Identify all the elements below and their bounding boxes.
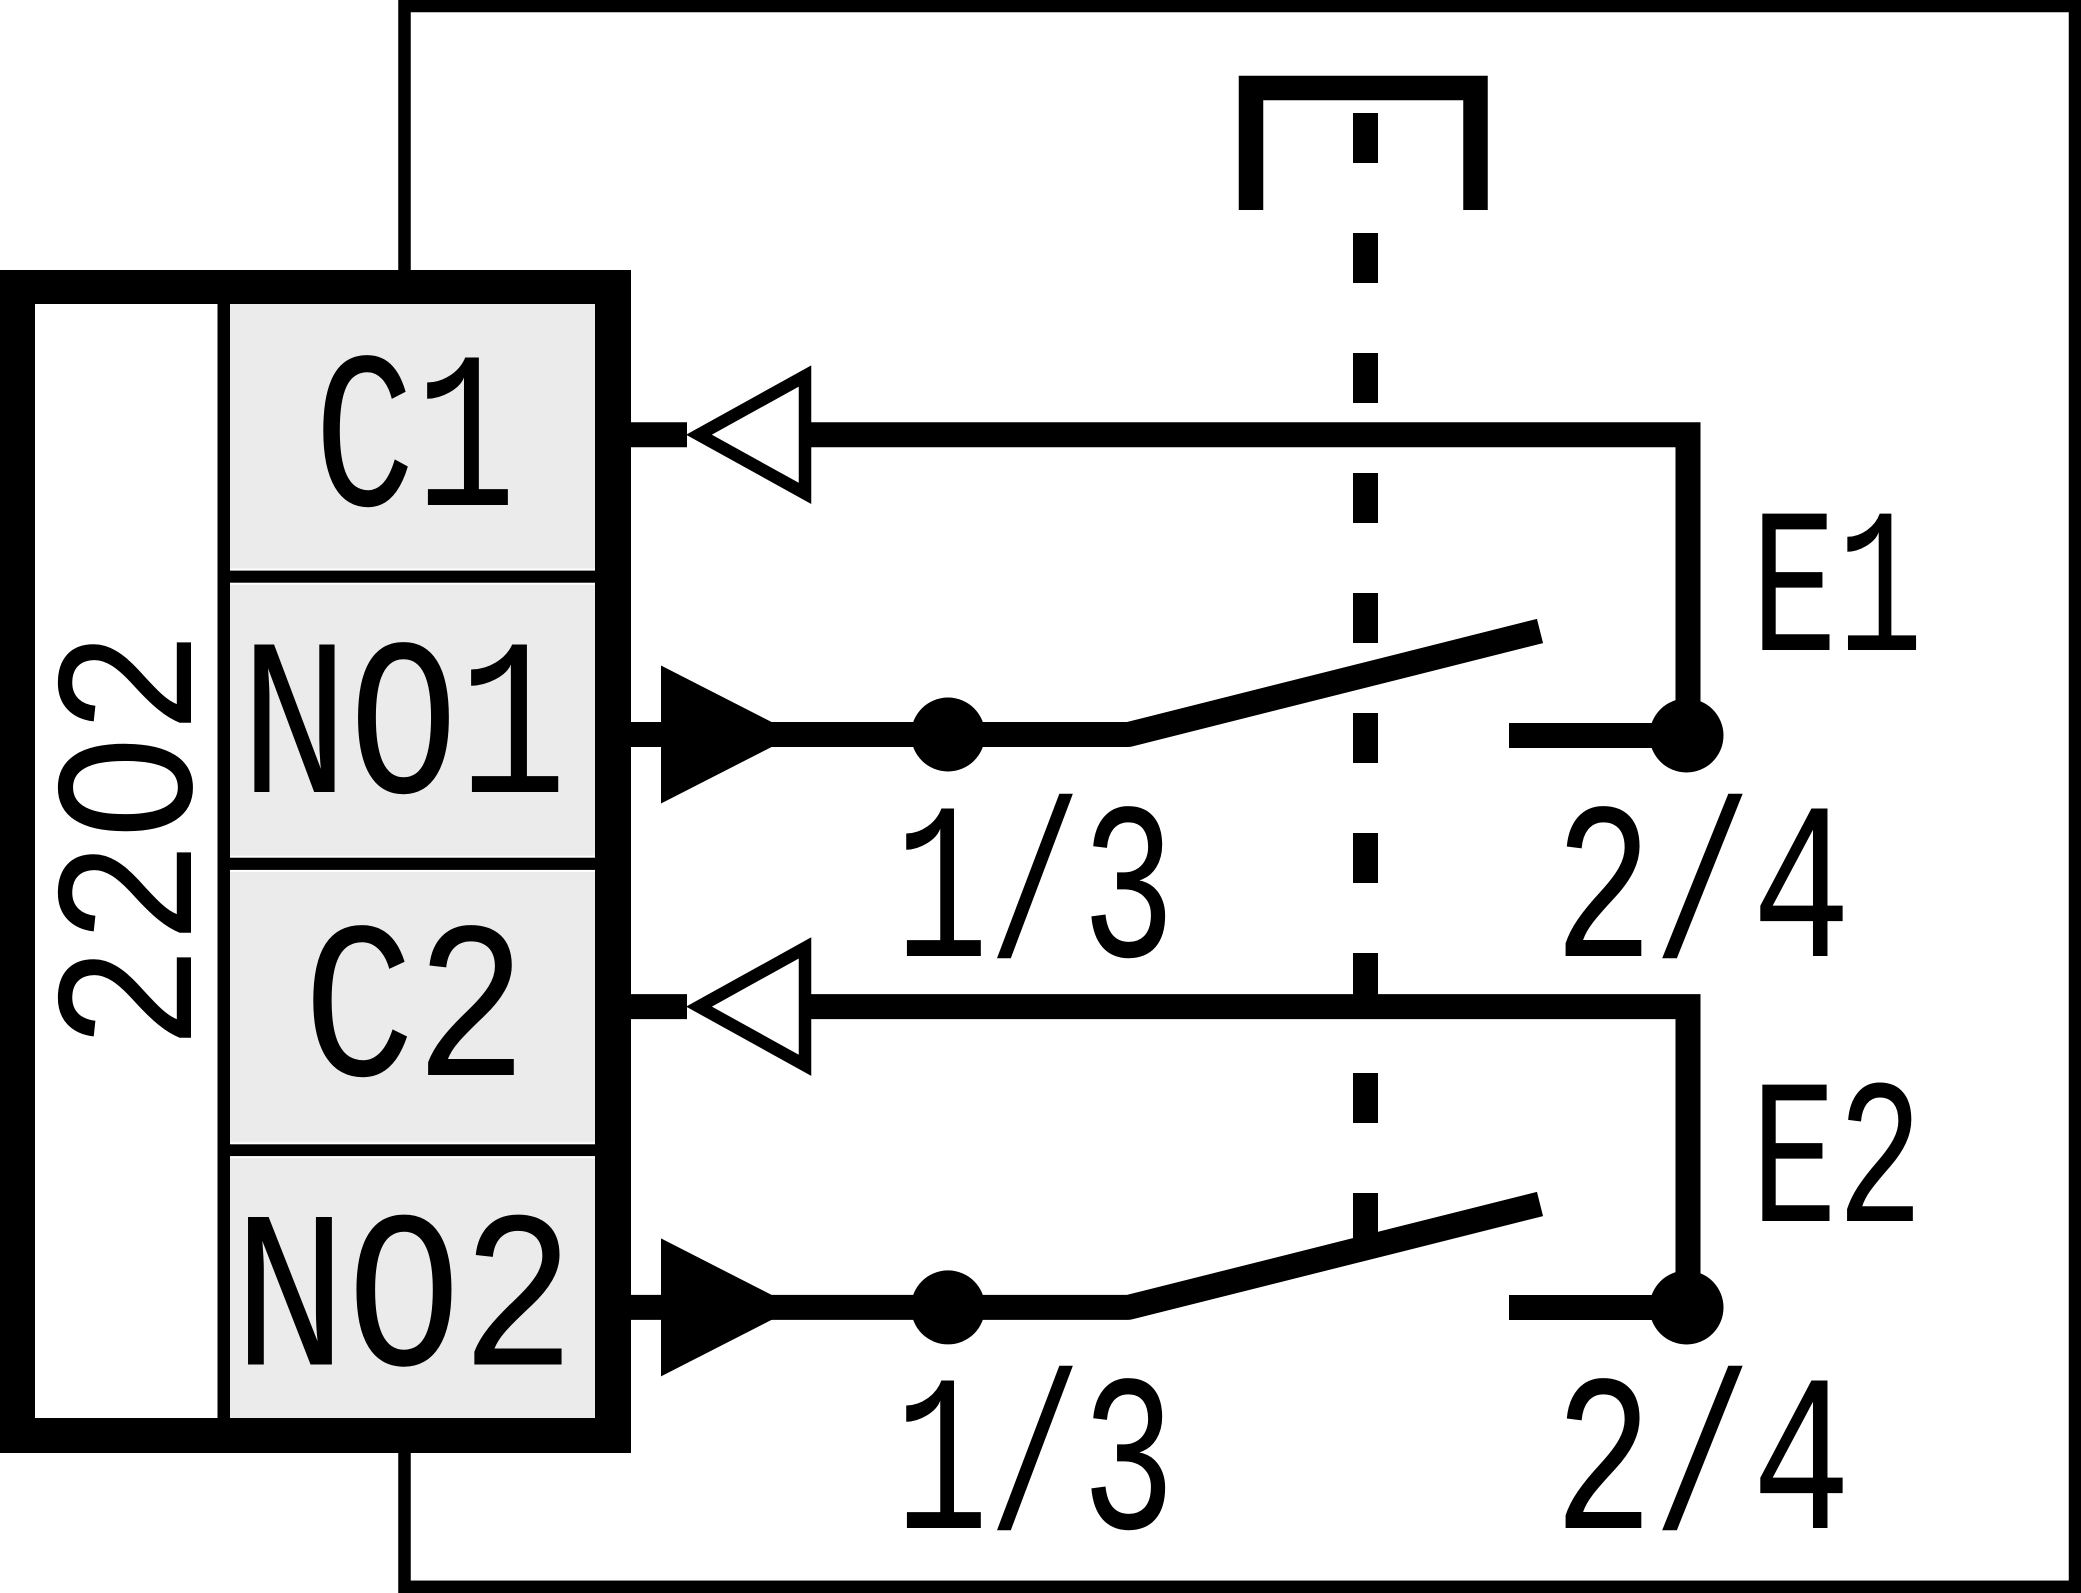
mechanical linkage (dashed line) [1353, 113, 1378, 1243]
cell divider [230, 1144, 595, 1156]
wire C1 stub [615, 422, 687, 447]
terminal NO1 cell [230, 585, 595, 856]
node E2 [1650, 1271, 1724, 1345]
svg-text:22O2: 22O2 [25, 630, 251, 1050]
svg-text:E1: E1 [1751, 479, 1923, 713]
wire NO2 right stub to E2 [1509, 1295, 1686, 1320]
svg-text:NO1: NO1 [240, 607, 567, 860]
arrow NO1 (solid, pointing right) [661, 666, 796, 804]
terminal NO2 cell [230, 1158, 595, 1418]
svg-text:NO2: NO2 [233, 1180, 575, 1433]
wire C2 stub [615, 994, 687, 1019]
cell divider [230, 858, 595, 870]
svg-text:C1: C1 [314, 320, 516, 573]
wire NO2 + switch blade S2 [615, 1204, 1540, 1307]
terminal block 2202 outer border [0, 270, 631, 1453]
wire C1 to E1 riser [805, 435, 1688, 736]
node 1/3 (NO2 junction) [911, 1270, 985, 1344]
svg-text:2/4: 2/4 [1554, 1343, 1851, 1593]
arrow C2 (open, pointing left) [699, 948, 805, 1065]
cell divider [230, 571, 595, 583]
wire NO1 right stub to E1 [1509, 723, 1686, 748]
svg-text:1/3: 1/3 [895, 1343, 1175, 1593]
arrow C1 (open, pointing left) [699, 376, 805, 493]
terminal C2 cell [230, 872, 595, 1142]
terminal block interior [35, 304, 595, 1418]
svg-text:1/3: 1/3 [895, 771, 1175, 1024]
svg-text:C2: C2 [303, 890, 527, 1143]
wire C2 to E2 riser [805, 1007, 1688, 1308]
node 1/3 (NO1 junction) [911, 698, 985, 772]
node E1 [1650, 699, 1724, 773]
arrow NO2 (solid, pointing right) [661, 1238, 796, 1376]
terminal C1 cell [230, 304, 595, 569]
enclosure outline (outer box) [405, 6, 2076, 1587]
terminal block inner divider [218, 304, 231, 1418]
svg-text:2/4: 2/4 [1554, 771, 1851, 1024]
actuator bracket (push-button linkage) [1251, 88, 1476, 210]
wire NO1 + switch blade S1 [615, 631, 1540, 735]
svg-text:E2: E2 [1751, 1050, 1923, 1284]
